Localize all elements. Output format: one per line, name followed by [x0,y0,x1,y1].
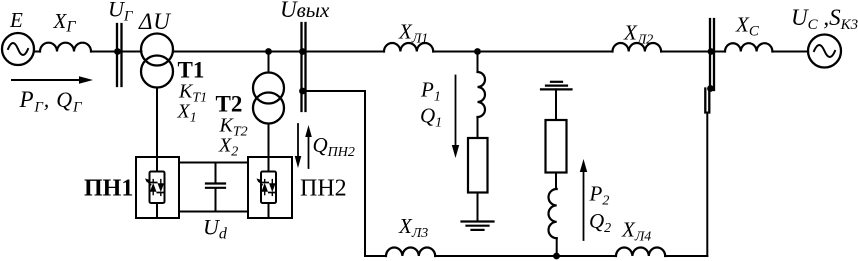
ПН2 valve block [261,172,276,204]
arrow QПН2 down [297,124,299,158]
wire XЛ4 to right riser [665,255,707,257]
ПН2 diode down [271,180,273,184]
wire T1 to bus Uвых [173,51,301,53]
wire choke to bottom node load2 [556,238,558,256]
wire choke to resistor load1 [477,117,479,138]
node bus Uвых branch [299,88,306,95]
ПН1 control arrow [147,181,151,185]
wire T1 to ПН1 [156,88,158,158]
choke load2 [549,189,557,238]
wire DC link top [179,162,248,164]
svg-text:ПН1: ПН1 [84,176,133,202]
wire tap to T2 [268,52,270,73]
wire right bus to XC [714,51,725,53]
generator system UC [808,35,841,68]
ПН1 diode up [152,180,154,183]
reactor XЛ4 [616,247,665,256]
ПН1 diode down [160,180,162,184]
wire branch down [364,91,366,256]
wire Uвых branch right [306,90,366,92]
wire resistor to ground load1 [477,193,479,222]
reactor XЛ2 [613,43,662,52]
choke load1 [478,72,486,117]
svg-text:ΔU: ΔU [138,9,171,34]
wire XC to system source [772,51,808,53]
node load1 tap [474,48,481,55]
converter ПН2 box [248,157,292,218]
wire resistor to choke load2 [555,173,557,190]
ПН1 internal leads [156,157,158,172]
bus system lower [704,89,706,113]
wire bottom left segment [365,255,386,257]
wire load1 from tap [477,52,479,73]
generator E [2,33,34,65]
resistor load2 [546,120,567,173]
ground load2 (top) [551,81,562,83]
wire ground to resistor load2 [555,89,557,120]
node load2 bottom [553,253,560,260]
svg-text:Т1: Т1 [178,58,205,83]
transformer T1 [141,34,173,66]
wire gen to XГ [34,51,40,53]
wire XГ to bus UГ [91,51,122,53]
arrow P1 Q1 [455,76,457,147]
wire XЛ2 to right bus [661,51,714,53]
svg-text:E: E [9,8,23,32]
wire right riser [706,113,708,257]
wire bus Uвых to XЛ1 [306,51,385,53]
bus system upper [709,19,711,90]
svg-text:Uвых: Uвых [280,0,330,22]
arrow P2 Q2 [583,171,585,240]
ПН2 diode up [264,180,266,183]
wire bus UГ to T1 [122,51,142,53]
arrow QПН2 up [308,135,310,168]
svg-text:ПН2: ПН2 [300,176,347,202]
wire XЛ1 to XЛ2 [433,51,612,53]
reactor XЛ1 [384,43,433,52]
reactor XЛ3 [386,248,435,257]
ПН2 control arrow [258,181,262,185]
wire DC link bottom [179,211,248,213]
converter ПН1 box [136,157,179,218]
resistor load1 [468,138,488,193]
node on bus UГ [114,48,121,55]
capacitor Ud [215,163,217,184]
reactor XГ [40,43,91,52]
ПН2 internal leads [268,157,270,172]
ПН1 valve block [150,172,165,204]
transformer T2 [253,73,284,104]
node bus Uвых main [299,48,306,55]
svg-text:Т2: Т2 [216,92,243,117]
reactor XC [725,43,772,51]
node right bus lower [707,85,714,92]
bus Uвых [300,23,302,111]
bus UГ [116,24,118,86]
wire T2 to ПН2 [268,124,270,158]
node right bus main [708,48,715,55]
arrow PГ QГ [12,79,81,81]
wire XЛ3 to node [435,255,616,257]
node T2 tap [265,48,272,55]
ground load1 [462,220,494,222]
